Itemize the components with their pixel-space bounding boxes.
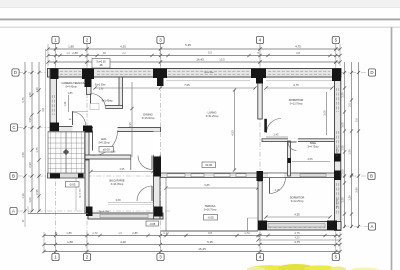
svg-text:±0.00: ±0.00 xyxy=(205,163,212,167)
chimney box xyxy=(92,59,110,69)
exterior wall right (axis 5) xyxy=(335,69,341,231)
dim line bucatarie top xyxy=(91,171,153,173)
axis bubble D right xyxy=(368,69,375,76)
interior wall camera tehnica south (axis C) xyxy=(50,127,92,133)
svg-text:S=15.30mp: S=15.30mp xyxy=(142,117,155,120)
extra dim row right section xyxy=(258,239,340,241)
interior wall hol north (to axis 3) xyxy=(92,128,161,132)
grid axis D horizontal xyxy=(18,72,368,74)
svg-text:Sp=0.90m: Sp=0.90m xyxy=(204,72,214,74)
bottom dimension row 3 (total) xyxy=(44,251,340,253)
axis bubble D left xyxy=(12,69,19,76)
svg-text:2,88: 2,88 xyxy=(72,51,78,55)
svg-text:4,35: 4,35 xyxy=(294,212,300,216)
svg-text:CAMERA TEHNICA: CAMERA TEHNICA xyxy=(61,81,84,85)
svg-text:4,75: 4,75 xyxy=(294,231,300,235)
interior wall baie north xyxy=(262,139,335,142)
shaft box hol corner xyxy=(90,104,99,110)
interior wall axis B (living/terasa + dormitor2) xyxy=(161,173,342,178)
svg-text:S=4.45mp: S=4.45mp xyxy=(65,86,77,89)
axis bubble B left xyxy=(10,172,17,179)
svg-text:4,8: 4,8 xyxy=(296,51,300,55)
column D/4 stem xyxy=(256,78,263,84)
dim connector xyxy=(160,44,162,66)
pavement edge bottom left xyxy=(28,213,88,215)
camera tehnica interior line xyxy=(68,95,70,112)
svg-text:2,15: 2,15 xyxy=(275,189,280,192)
column baie wall xyxy=(288,158,292,163)
svg-text:3,05: 3,05 xyxy=(323,110,327,116)
level box porch xyxy=(66,182,80,188)
svg-text:16,45: 16,45 xyxy=(198,247,206,251)
previous page bottom edge xyxy=(0,18,400,20)
svg-text:Sp=2.30m: Sp=2.30m xyxy=(80,188,82,198)
svg-text:A: A xyxy=(371,224,374,229)
dim connector xyxy=(339,44,341,66)
axis bubble 1 bottom xyxy=(52,253,59,260)
axis bubble B right xyxy=(368,172,375,179)
window band dormitor2 south xyxy=(268,224,325,228)
closet debara south wall xyxy=(91,106,123,109)
svg-text:1,72: 1,72 xyxy=(92,231,98,235)
left dim line xyxy=(31,62,33,212)
svg-text:DINING: DINING xyxy=(143,113,152,117)
svg-text:1,06: 1,06 xyxy=(111,150,116,153)
svg-text:1,50: 1,50 xyxy=(28,92,32,98)
svg-text:D: D xyxy=(14,70,17,75)
dim connector xyxy=(55,44,57,66)
svg-text:7,05: 7,05 xyxy=(184,83,190,87)
column C/1 xyxy=(50,123,59,132)
svg-text:1,26: 1,26 xyxy=(348,195,352,201)
interior dim baie xyxy=(292,161,330,163)
window glazing top wall xyxy=(268,70,330,72)
intermediate ticks right column xyxy=(343,86,346,89)
grid axis 3 vertical xyxy=(160,44,162,253)
door arc baie xyxy=(288,142,297,151)
closet debara east wall xyxy=(119,77,123,108)
porch side dim line xyxy=(75,179,77,212)
svg-text:3,08: 3,08 xyxy=(115,198,121,202)
svg-text:1,85: 1,85 xyxy=(67,91,73,95)
svg-text:1,95: 1,95 xyxy=(28,117,32,123)
svg-text:13,5: 13,5 xyxy=(219,57,225,61)
terasa bottom edge xyxy=(161,230,259,232)
axis bubble 5 bottom xyxy=(332,253,339,260)
column D/5 xyxy=(332,69,341,82)
door arc closet debara xyxy=(91,94,106,109)
svg-text:4,8: 4,8 xyxy=(41,108,45,112)
grid axis 1 vertical xyxy=(55,44,57,253)
top dimension row 3 xyxy=(48,61,340,63)
column A2/4 xyxy=(258,221,267,231)
svg-text:S=16.76mp: S=16.76mp xyxy=(204,209,217,212)
top dimension row 1 xyxy=(48,48,340,50)
svg-text:5,35: 5,35 xyxy=(185,43,191,47)
window glazing left wall xyxy=(51,95,53,115)
column B/1 xyxy=(50,172,60,179)
svg-text:HOL: HOL xyxy=(101,137,107,141)
svg-text:S=6.35mp: S=6.35mp xyxy=(98,142,110,145)
kitchen counter line xyxy=(108,202,154,204)
svg-text:0,95: 0,95 xyxy=(35,189,39,195)
bottom dimension texts xyxy=(164,234,167,237)
porch center joint xyxy=(65,132,67,174)
column D/2 stem xyxy=(85,79,92,87)
exterior wall top (axis D) xyxy=(48,69,342,78)
grid axis B horizontal xyxy=(18,175,368,177)
right dim line xyxy=(358,62,360,228)
svg-text:-0.05: -0.05 xyxy=(69,183,76,187)
axis bubble 4 bottom xyxy=(256,253,263,260)
level box bucatarie south xyxy=(146,221,159,226)
svg-text:2,95: 2,95 xyxy=(120,168,125,171)
level box hol xyxy=(99,147,114,153)
svg-text:Sp=0.90m: Sp=0.90m xyxy=(337,198,339,208)
door opening hol closet xyxy=(131,155,152,160)
axis bubble 2 bottom xyxy=(83,253,90,260)
svg-text:5,0: 5,0 xyxy=(355,118,359,122)
interior dim dormitor1 height xyxy=(326,92,328,135)
intermediate ticks left column xyxy=(30,93,33,96)
window band hol noapte south xyxy=(300,174,326,177)
axis bubble 3 top xyxy=(157,36,164,43)
left dim line xyxy=(24,62,26,212)
interior dim hall dim xyxy=(266,136,288,138)
svg-text:S=31.25mp: S=31.25mp xyxy=(206,115,219,118)
window sill line dormitor1 xyxy=(266,80,333,82)
svg-text:1,98: 1,98 xyxy=(99,89,104,91)
intermediate ticks bottom row1 (window edges) xyxy=(98,234,101,237)
dim connector bottom xyxy=(259,232,261,253)
svg-text:1,45: 1,45 xyxy=(273,132,279,136)
axis tick crossing marks top row1/3 xyxy=(54,47,57,50)
svg-text:3,5: 3,5 xyxy=(348,103,352,107)
svg-text:S=12.25mp: S=12.25mp xyxy=(291,200,304,203)
dim connector bottom xyxy=(43,232,45,253)
svg-text:Su=1.35: Su=1.35 xyxy=(96,60,106,63)
axis bubble 2 top xyxy=(83,36,90,43)
svg-text:5,85: 5,85 xyxy=(204,183,210,187)
sliding glass door segments living-terasa xyxy=(167,174,185,177)
right dim line xyxy=(351,62,353,228)
window glazing top wall xyxy=(97,70,152,72)
axis bubble A right xyxy=(368,223,375,230)
svg-text:4,55: 4,55 xyxy=(230,130,234,136)
door arc hol-bucatarie xyxy=(138,156,152,170)
column right wall mid xyxy=(334,154,341,162)
current page top edge xyxy=(0,26,400,28)
grid axis 4 vertical xyxy=(259,44,261,253)
column D/1 xyxy=(51,69,59,80)
svg-text:5,35: 5,35 xyxy=(207,240,213,244)
level box living xyxy=(202,162,216,168)
interior wall hol west / porch east xyxy=(85,132,89,161)
door arc camera tehnica xyxy=(73,112,86,125)
column D/3 stem xyxy=(157,78,164,86)
dim connector bottom xyxy=(339,232,341,253)
hol east wall segment xyxy=(154,132,161,156)
svg-text:-0.05: -0.05 xyxy=(207,216,214,220)
window band bucatarie south xyxy=(100,214,148,217)
dim connector bottom xyxy=(335,232,337,253)
svg-text:2,05: 2,05 xyxy=(307,157,313,161)
svg-text:1,80: 1,80 xyxy=(67,240,73,244)
svg-text:D: D xyxy=(370,70,373,75)
svg-text:3,90: 3,90 xyxy=(355,187,359,193)
svg-text:3,75: 3,75 xyxy=(21,97,25,103)
svg-text:DORMITOR: DORMITOR xyxy=(289,98,304,102)
svg-text:BAIE: BAIE xyxy=(310,141,316,145)
dim connector bottom xyxy=(55,232,57,253)
column B/3 tall xyxy=(154,157,162,177)
axis bubble 1 top xyxy=(52,36,59,43)
door arc dormitor2 xyxy=(270,178,286,194)
dim connector xyxy=(259,44,261,66)
svg-text:S=11.05mp: S=11.05mp xyxy=(111,183,124,186)
dining vertical dim line xyxy=(131,82,133,157)
door opening closet debara xyxy=(91,105,106,109)
top dimension row 2 xyxy=(48,55,340,57)
svg-text:4,20: 4,20 xyxy=(120,240,126,244)
exterior wall left (camera tehnica) xyxy=(50,69,57,132)
terasa left edge xyxy=(165,178,167,232)
door opening baie north xyxy=(288,138,298,142)
svg-text:1,85: 1,85 xyxy=(66,231,72,235)
column D/4 head xyxy=(251,69,266,79)
dim connector xyxy=(47,44,49,66)
interior dim dormitor1 width xyxy=(266,87,332,89)
svg-text:4,20: 4,20 xyxy=(295,237,300,240)
column D/2 head xyxy=(82,69,94,80)
svg-text:1,80: 1,80 xyxy=(68,45,74,49)
axis bubble C left xyxy=(10,124,17,131)
dim connector bottom xyxy=(160,232,162,253)
svg-text:1,36: 1,36 xyxy=(35,87,39,93)
interior dim living height xyxy=(234,90,236,170)
svg-text:±0.00: ±0.00 xyxy=(103,148,110,152)
svg-text:4,20: 4,20 xyxy=(120,45,126,49)
interior wall dormitor1 west (axis 4) xyxy=(258,77,262,119)
porch tiled steps hatch xyxy=(48,132,85,174)
window glazing right wall xyxy=(336,88,338,112)
wall axis2 below top wall xyxy=(87,77,92,95)
column A2/5 xyxy=(327,221,337,231)
column C/2 xyxy=(83,126,92,133)
window glazing right wall xyxy=(336,183,338,214)
axis bubble A left xyxy=(10,207,17,214)
left dim terminator xyxy=(45,49,47,214)
door arc entrance hol xyxy=(93,131,118,156)
exterior wall bottom right (dormitor 2 south) xyxy=(258,222,341,231)
grid axis 5 vertical xyxy=(335,44,337,253)
svg-text:B: B xyxy=(370,174,373,179)
svg-text:1,75: 1,75 xyxy=(35,147,39,153)
door arc dormitor1 xyxy=(267,119,282,134)
svg-text:16,45: 16,45 xyxy=(196,58,204,62)
dim connector xyxy=(335,44,337,66)
column A/3 xyxy=(154,207,163,217)
dim connector xyxy=(86,44,88,66)
interior wall bucatarie west xyxy=(85,160,89,213)
svg-text:TERASA: TERASA xyxy=(205,204,216,208)
svg-text:S=4.75mp: S=4.75mp xyxy=(308,145,320,148)
right dim line xyxy=(344,62,346,228)
left dim line xyxy=(38,62,40,212)
grid axis C horizontal xyxy=(18,127,92,129)
svg-text:2,95: 2,95 xyxy=(128,122,132,128)
door opening camera tehnica xyxy=(73,126,86,133)
interior wall baie west xyxy=(288,141,291,176)
svg-text:1,50: 1,50 xyxy=(21,152,25,158)
interior dim terasa row xyxy=(166,237,258,239)
bottom dimension row 1 xyxy=(44,235,340,237)
svg-text:S=1.40mp: S=1.40mp xyxy=(102,100,114,103)
yellow highlight marks bottom xyxy=(247,264,379,270)
svg-text:1,50: 1,50 xyxy=(348,149,352,155)
grid axis 2 vertical xyxy=(86,44,88,253)
exterior wall bottom left (bucatarie south) xyxy=(88,213,163,219)
column B/porch corner xyxy=(78,174,84,178)
door opening entrance hol xyxy=(93,127,118,132)
interior dim dormitor2 width xyxy=(266,216,330,218)
door opening dormitor2 xyxy=(268,173,284,177)
bottom dimension row 2 xyxy=(44,244,340,246)
terasa step right xyxy=(247,218,249,231)
svg-text:Sp=0.90m: Sp=0.90m xyxy=(337,147,339,157)
svg-text:A: A xyxy=(12,209,15,214)
svg-text:2,90: 2,90 xyxy=(28,162,32,168)
svg-text:B: B xyxy=(12,174,15,179)
window glazing top wall xyxy=(60,70,81,72)
svg-text:LIVING: LIVING xyxy=(208,111,217,115)
svg-text:1,06: 1,06 xyxy=(64,101,67,106)
grid axis A horizontal left xyxy=(18,210,170,212)
svg-text:C: C xyxy=(12,125,15,130)
svg-text:5,5: 5,5 xyxy=(208,51,212,55)
interior wall hol south / bucatarie north xyxy=(85,155,131,159)
dim line under terasa sliding door xyxy=(166,187,258,189)
svg-text:4,75: 4,75 xyxy=(294,240,300,244)
dim connector bottom xyxy=(86,232,88,253)
column B/4 xyxy=(257,171,264,181)
interior wall bucatarie east (axis 3) xyxy=(154,155,161,219)
svg-text:BUCATARIE: BUCATARIE xyxy=(110,179,125,183)
window glazing top wall xyxy=(168,70,249,72)
window glazing right wall xyxy=(336,131,338,152)
svg-text:2,85: 2,85 xyxy=(132,231,138,235)
svg-text:1,10: 1,10 xyxy=(21,193,25,199)
axis bubble 4 top xyxy=(256,36,263,43)
viewer top strip xyxy=(0,0,400,8)
window sill line living xyxy=(166,80,250,82)
intermediate ticks top row2 (window edges) xyxy=(58,54,61,57)
svg-text:1,06: 1,06 xyxy=(28,197,32,203)
grid axis A horizontal right xyxy=(344,226,368,228)
svg-text:S=13.78mp: S=13.78mp xyxy=(290,103,303,106)
door frame hol closet xyxy=(130,155,132,170)
svg-text:-0.08: -0.08 xyxy=(149,222,155,226)
interior wall dormitor2 west xyxy=(258,181,262,222)
interior dim living width xyxy=(95,87,255,89)
page right border xyxy=(391,27,393,270)
column A/2 xyxy=(86,207,93,217)
svg-text:Sp=0.00m: Sp=0.00m xyxy=(99,211,109,213)
left dim stub below A xyxy=(24,212,26,228)
porch bottom wall (axis B left) xyxy=(48,173,86,178)
svg-text:4,75: 4,75 xyxy=(295,45,301,49)
column D/3 head xyxy=(153,69,167,79)
axis bubble 3 bottom xyxy=(157,253,164,260)
svg-text:,36: ,36 xyxy=(102,51,106,55)
svg-text:DORMITOR: DORMITOR xyxy=(290,196,305,200)
door arc bucatarie-terasa xyxy=(137,186,152,201)
column B/5 xyxy=(334,171,341,181)
axis bubble 5 top xyxy=(332,36,339,43)
svg-text:4,75: 4,75 xyxy=(293,83,299,87)
level box terasa xyxy=(204,215,218,221)
door frame camera tehnica xyxy=(72,110,88,112)
